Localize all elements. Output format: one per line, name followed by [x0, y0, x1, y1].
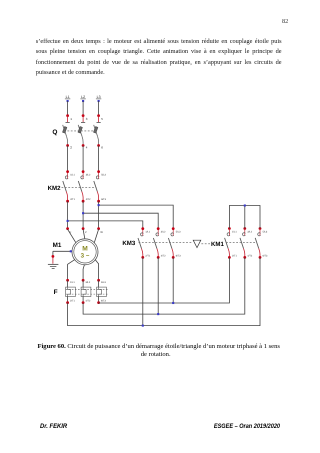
- relay F pole 2: [81, 279, 91, 304]
- svg-text:6/T3: 6/T3: [263, 254, 268, 257]
- wire to earth symbol: [52, 258, 54, 264]
- svg-text:4/T2: 4/T2: [86, 299, 91, 302]
- junction bus T1 junction: [142, 325, 144, 327]
- svg-text:5/L3: 5/L3: [101, 281, 106, 284]
- wire branch phase 2 to KM3: [83, 213, 158, 228]
- wire KM3 pole 2 to bus T2: [157, 257, 159, 314]
- wire KM1 star bridge: [229, 206, 260, 229]
- svg-text:KM1: KM1: [211, 241, 224, 248]
- svg-text:3/L2: 3/L2: [247, 231, 252, 234]
- svg-text:6/T3: 6/T3: [101, 299, 106, 302]
- mechanical interlock dashed link: [201, 243, 210, 245]
- svg-text:F: F: [54, 289, 58, 296]
- wire stator to F pole 1: [68, 260, 75, 281]
- motor M1: [72, 239, 98, 265]
- svg-text:3: 3: [86, 117, 88, 121]
- junction motor frame tap: [70, 250, 72, 252]
- svg-text:3 ~: 3 ~: [81, 253, 90, 260]
- contactor KM3 pole 3: [168, 227, 181, 259]
- dashed mechanical link KM1: [226, 242, 257, 244]
- wire Q pole 3 to KM2: [98, 146, 100, 172]
- node motor terminal U: [66, 227, 69, 230]
- wire branch phase 1 to KM3: [68, 221, 143, 229]
- dashed mechanical link KM3: [139, 242, 193, 244]
- wire bus T2 from F to KM1: [83, 257, 245, 314]
- svg-text:6/T3: 6/T3: [176, 254, 181, 257]
- junction branch tap phase 1: [67, 220, 69, 222]
- svg-text:1/L1: 1/L1: [232, 231, 237, 234]
- contactor KM2 pole 2: [78, 170, 91, 202]
- svg-text:M: M: [82, 246, 88, 253]
- wire KM3 pole 1 to bus T1: [142, 257, 144, 325]
- node earth terminal: [52, 255, 55, 258]
- svg-text:4: 4: [86, 146, 88, 150]
- contactor KM3 pole 1: [138, 227, 151, 259]
- wire stator to F pole 2: [83, 265, 84, 281]
- svg-text:4/T2: 4/T2: [161, 254, 166, 257]
- svg-text:V: V: [85, 231, 87, 234]
- wire earth drop: [52, 251, 54, 255]
- junction bus T3 junction: [172, 302, 174, 304]
- dashed mechanical link Q: [64, 130, 96, 132]
- dashed mechanical link KM2: [62, 186, 97, 188]
- svg-text:2/T1: 2/T1: [70, 198, 75, 201]
- contactor KM2 pole 3: [94, 170, 107, 202]
- wire KM3 pole 3 to bus T3: [172, 257, 174, 303]
- wire V to stator: [83, 229, 85, 239]
- svg-text:2: 2: [70, 146, 72, 150]
- svg-text:1/L1: 1/L1: [70, 174, 75, 177]
- wire Q pole 1 to KM2: [67, 146, 69, 172]
- contactor KM2 pole 1: [63, 170, 76, 202]
- svg-text:5/L3: 5/L3: [263, 231, 268, 234]
- ground: [48, 264, 59, 268]
- wire bus T1 from F to KM1: [68, 257, 260, 325]
- node motor terminal W: [97, 227, 100, 230]
- svg-text:W: W: [100, 231, 103, 234]
- junction branch tap phase 3: [98, 204, 100, 206]
- svg-text:5: 5: [101, 117, 103, 121]
- wire L3 to Q: [98, 101, 100, 116]
- breaker Q pole 2: [78, 114, 88, 149]
- svg-text:5/L3: 5/L3: [176, 231, 181, 234]
- svg-text:6/T3: 6/T3: [101, 198, 106, 201]
- svg-text:KM2: KM2: [48, 185, 61, 192]
- breaker Q pole 1: [62, 114, 72, 149]
- contactor KM1 pole 1: [225, 227, 238, 259]
- wire branch phase 3 to KM3: [99, 205, 174, 229]
- svg-text:4/T2: 4/T2: [86, 198, 91, 201]
- wire KM2 pole 2 to motor: [82, 201, 84, 228]
- breaker Q pole 3: [93, 114, 103, 149]
- svg-text:Q: Q: [52, 129, 57, 136]
- svg-text:3/L2: 3/L2: [86, 281, 91, 284]
- wire motor frame to earth: [53, 250, 72, 252]
- svg-text:1/L1: 1/L1: [70, 281, 75, 284]
- mechanical interlock symbol: [193, 240, 201, 247]
- svg-text:KM3: KM3: [122, 240, 135, 247]
- wire L1 to Q: [67, 101, 69, 116]
- svg-text:6: 6: [101, 146, 103, 150]
- relay F pole 1: [66, 279, 76, 304]
- node motor terminal V: [82, 227, 85, 230]
- dashed mechanical link F: [66, 289, 109, 291]
- svg-text:2/T1: 2/T1: [70, 299, 75, 302]
- wire bus T3 from F to KM1: [99, 257, 230, 303]
- wire Q pole 2 to KM2: [82, 146, 84, 172]
- wire W to stator: [94, 229, 98, 242]
- svg-text:3/L2: 3/L2: [86, 174, 91, 177]
- junction L2 source terminal: [82, 100, 84, 102]
- wire L2 to Q: [82, 101, 84, 116]
- svg-text:1/L1: 1/L1: [145, 231, 150, 234]
- svg-text:3/L2: 3/L2: [161, 231, 166, 234]
- junction branch tap phase 2: [82, 212, 84, 214]
- contactor KM1 pole 3: [255, 227, 268, 259]
- svg-text:5/L3: 5/L3: [101, 174, 106, 177]
- svg-text:L3: L3: [97, 95, 101, 99]
- junction L1 source terminal: [67, 100, 69, 102]
- contactor KM1 pole 2: [240, 227, 253, 259]
- svg-text:M1: M1: [53, 242, 62, 249]
- contactor KM3 pole 2: [153, 227, 166, 259]
- svg-text:2/T1: 2/T1: [145, 254, 150, 257]
- wire KM2 pole 1 to motor: [67, 201, 69, 228]
- wire KM2 pole 3 to motor: [98, 201, 100, 228]
- svg-text:4/T2: 4/T2: [247, 254, 252, 257]
- svg-text:L2: L2: [81, 95, 85, 99]
- relay F pole 3: [97, 279, 107, 304]
- junction L3 source terminal: [98, 100, 100, 102]
- wire U to stator: [68, 229, 76, 242]
- wire stator to F pole 3: [95, 260, 98, 281]
- junction star bridge junction: [244, 204, 246, 206]
- svg-text:L1: L1: [66, 95, 70, 99]
- svg-text:1: 1: [70, 117, 72, 121]
- junction bus T2 junction: [157, 313, 159, 315]
- svg-text:2/T1: 2/T1: [232, 254, 237, 257]
- wire KM1 star bridge middle: [244, 206, 246, 229]
